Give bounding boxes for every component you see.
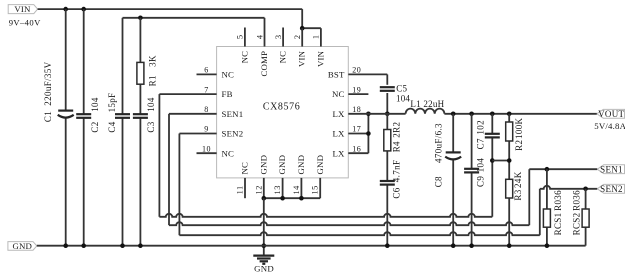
wire R2 R3 leg [508,114,510,246]
wire C8 leg [452,114,454,246]
U1 pin number 5 [236,34,245,39]
svg-text:2R2: 2R2 [391,122,401,138]
U1 pin 11 name NC [240,162,250,175]
U1 pin 3 name NC [278,51,288,64]
svg-text:GND: GND [12,241,32,251]
wire FB from pin 7 [159,94,216,217]
svg-text:C2: C2 [90,121,100,132]
node VOUT output flag [594,109,625,131]
junction SEN1/RCS1 [545,167,550,172]
junction R2/R3/FB [507,158,512,163]
U1 pin 12 name GND [258,155,268,175]
svg-text:SEN1: SEN1 [600,164,623,174]
svg-text:3K: 3K [148,55,158,67]
inductor L1 [406,99,445,114]
wire VIN drop to pin 2 [301,9,303,28]
capacitor C8 [433,123,461,187]
junction pin 14 [299,196,304,201]
wire SEN2 return line [179,232,539,235]
U1 pin 6 stub [197,73,217,75]
U1 pin number 15 [311,185,320,194]
svg-text:16: 16 [352,144,361,153]
svg-text:104: 104 [396,93,410,103]
svg-text:R2: R2 [514,140,524,151]
U1 pin 5 name NC [239,51,249,64]
svg-text:15pF: 15pF [107,92,117,112]
svg-text:GND: GND [254,264,274,274]
junction pin 12 [262,196,267,201]
resistor R1 [137,55,158,86]
wire C5 to LX [386,93,388,114]
junction LX/pin18 [366,112,371,117]
svg-text:12: 12 [254,185,263,194]
U1 pin number 10 [202,144,211,153]
svg-text:102: 102 [476,120,486,135]
U1 pin 2 stub [301,28,303,46]
U1 pin 10 name NC [222,148,235,158]
U1 pin number 2 [293,34,302,39]
svg-text:R036: R036 [553,190,563,211]
svg-text:6: 6 [204,66,209,75]
svg-text:COMP: COMP [259,51,269,77]
U1 pin 18 name LX [332,109,345,119]
wire SEN1 flag line [529,168,597,170]
wire GND rail [37,245,586,247]
svg-text:15: 15 [311,185,320,194]
junction C7/FB line [490,158,495,163]
wire R1 C3 leg [139,18,141,246]
svg-text:5: 5 [236,34,245,39]
U1 pin number 9 [204,125,209,134]
wire SEN2 up leg [539,189,541,235]
U1 pin 3 stub [282,28,284,47]
U1 pin 20 BST wire [348,74,387,84]
U1 pin 7 name FB [222,89,233,99]
U1 pin 19 stub [348,93,368,95]
node VIN power flag [8,4,41,27]
wire C1 leg [65,9,67,246]
svg-text:CX8576: CX8576 [263,102,301,113]
svg-text:C7: C7 [476,138,486,149]
U1 pin number 17 [352,125,361,134]
U1 pin number 14 [292,185,301,195]
U1 pin number 8 [204,105,209,114]
U1 pin 17 name LX [332,129,345,139]
svg-text:104: 104 [476,158,486,173]
junction pin 13 [280,196,285,201]
junction SEN2/RCS2 [583,187,588,192]
svg-text:7: 7 [204,85,209,94]
wire SEN1 from pin 8 [169,114,217,225]
svg-text:RCS2: RCS2 [572,212,582,235]
junction VOUT/C8 [451,112,456,117]
junction C5/R4/LX [385,112,390,117]
capacitor C2 [76,97,100,132]
junction VIN/C2 [81,7,86,12]
wire C9 leg [471,114,473,246]
U1 pin 13 name GND [277,155,287,175]
node SEN2 flag [597,184,624,194]
U1 pin 10 stub [197,152,217,154]
svg-text:BST: BST [328,70,345,80]
wire SEN2 from pin 9 [179,134,216,236]
svg-text:NC: NC [332,89,345,99]
svg-text:LX: LX [332,109,345,119]
wire FB junction link [492,160,509,162]
svg-text:NC: NC [240,162,250,175]
U1 bottom pin stubs 11-15 [245,178,320,198]
capacitor C5 [380,83,411,103]
wire IC ground drop [263,198,265,255]
resistor R4 [384,122,402,153]
svg-text:2: 2 [293,34,302,39]
U1 pin number 4 [255,34,264,39]
U1 pin number 19 [352,85,361,94]
wire FB return line [159,214,492,217]
capacitor C9 [464,158,486,187]
junction gnd rail/C9 [469,243,474,248]
U1 pin 5 stub [244,28,246,47]
svg-text:R4: R4 [391,141,401,152]
U1 pin 14 name GND [296,155,306,175]
U1 pin 1 name VIN [315,50,325,67]
svg-text:SEN2: SEN2 [600,184,623,194]
wire C2 leg [83,9,85,246]
svg-text:17: 17 [352,125,361,134]
junction LX/pin17 [366,131,371,136]
svg-text:C1: C1 [43,111,53,122]
svg-text:C9: C9 [476,176,486,187]
svg-text:VOUT: VOUT [598,109,624,119]
svg-text:NC: NC [222,148,235,158]
svg-text:18: 18 [352,105,361,114]
svg-text:14: 14 [292,185,301,195]
svg-text:C4: C4 [107,121,117,132]
svg-text:GND: GND [296,155,306,175]
svg-text:10: 10 [202,144,211,153]
junction on VIN at pin2 [300,26,305,31]
wire VOUT rail [444,113,596,115]
svg-text:GND: GND [277,155,287,175]
resistor RCS2 [572,190,589,236]
svg-text:C6: C6 [392,187,402,198]
svg-text:GND: GND [315,155,325,175]
svg-text:470uF/6.3: 470uF/6.3 [433,123,443,163]
junction COMP/R1 [138,15,143,20]
capacitor C1 [43,61,74,122]
U1 pin 16 stub [348,152,368,154]
ground symbol [253,256,274,274]
svg-text:R1: R1 [148,75,158,86]
capacitor C6 [380,160,402,199]
svg-text:C8: C8 [433,176,443,187]
junction VOUT/C9 [469,112,474,117]
U1 pin number 18 [352,105,361,114]
junction VOUT/R2 [507,112,512,117]
capacitor C4 [107,92,130,132]
U1 pin 4 stub [264,18,266,47]
U1 pin number 13 [273,185,282,194]
U1 pin 15 name GND [315,155,325,175]
svg-text:VIN: VIN [297,50,307,67]
resistor R2 [506,117,524,150]
svg-text:104: 104 [146,97,156,112]
svg-text:R3: R3 [513,189,523,200]
U1 pin 8 name SEN1 [222,109,244,119]
junction gnd rail/R3 [507,243,512,248]
wire VIN rail [38,8,303,10]
svg-text:100K: 100K [514,117,524,139]
svg-text:GND: GND [258,155,268,175]
U1 pin 20 name BST [328,70,345,80]
junction gnd rail/C3 [138,243,143,248]
U1 pin 4 name COMP [259,51,269,77]
svg-text:VIN: VIN [315,50,325,67]
svg-text:104: 104 [90,97,100,112]
svg-text:3: 3 [274,34,283,39]
svg-text:20: 20 [352,66,361,75]
svg-text:13: 13 [273,185,282,194]
junction gnd rail/C2 [81,243,86,248]
svg-text:19: 19 [352,85,361,94]
capacitor C7 [476,120,500,149]
svg-text:9: 9 [204,125,209,134]
wire R4 leg [386,114,388,246]
svg-text:SEN2: SEN2 [222,129,244,139]
U1 pin number 16 [352,144,361,153]
junction gnd rail/C4 [120,243,125,248]
wire C7 leg [491,114,493,217]
U1 pin 1 stub [320,28,322,46]
wire SEN2 flag line [540,186,597,189]
wire pin1-pin2 tie [302,27,321,29]
junction gnd rail/IC [262,243,267,248]
wire SEN1 return line [169,222,529,225]
svg-text:9V–40V: 9V–40V [9,18,41,28]
svg-text:C5: C5 [396,83,407,93]
wire GND tie line [264,197,320,199]
svg-text:L1 22uH: L1 22uH [410,99,444,109]
U1 pin 19 name NC [332,89,345,99]
wire LX rail [348,113,405,115]
U1 pin number 1 [312,34,321,39]
svg-text:11: 11 [236,185,245,194]
svg-text:C3: C3 [146,121,156,132]
junction gnd rail/C8 [451,243,456,248]
U1 pin 2 name VIN [297,50,307,67]
svg-text:SEN1: SEN1 [222,109,244,119]
svg-text:R036: R036 [572,190,582,211]
wire RCS2 leg [585,189,587,246]
U1 pin 6 name NC [222,70,235,80]
resistor R3 [506,171,523,200]
wire COMP line [123,17,265,19]
svg-text:4: 4 [255,34,264,39]
svg-text:RCS1: RCS1 [553,212,563,235]
junction gnd rail/C1 [63,243,68,248]
U1 pin number 12 [254,185,263,194]
U1 pin number 11 [236,185,245,194]
node SEN1 flag [597,164,624,174]
junction VOUT/C7 [490,112,495,117]
U1 pin number 7 [204,85,209,94]
wire RCS1 leg [546,169,548,246]
svg-text:24K: 24K [513,171,523,188]
wire LX tie vertical [367,114,369,153]
U1 pin number 3 [274,34,283,39]
op-amp U1 CX8576 IC body [217,47,349,178]
U1 pin 9 name SEN2 [222,129,244,139]
capacitor C3 [133,97,156,132]
U1 pin number 6 [204,66,209,75]
svg-text:LX: LX [332,148,345,158]
wire C4 leg [122,18,124,246]
U1 pin 17 stub [348,133,368,135]
junction gnd rail/RCS1 [545,243,550,248]
svg-text:LX: LX [332,129,345,139]
svg-text:8: 8 [204,105,209,114]
svg-text:NC: NC [278,51,288,64]
junction gnd rail/C6 [385,243,390,248]
svg-text:NC: NC [239,51,249,64]
wire SEN1 up leg [528,169,530,225]
U1 pin 16 name LX [332,148,345,158]
resistor RCS1 [543,190,563,236]
svg-text:VIN: VIN [14,4,31,14]
svg-text:FB: FB [222,89,233,99]
svg-text:NC: NC [222,70,235,80]
junction VIN/C1 [63,7,68,12]
node GND power flag [8,241,37,251]
svg-text:1: 1 [312,34,321,39]
svg-text:5V/4.8A: 5V/4.8A [594,121,625,131]
U1 pin number 20 [352,66,361,75]
svg-text:220uF/35V: 220uF/35V [43,61,53,105]
svg-text:4.7nF: 4.7nF [392,160,402,183]
